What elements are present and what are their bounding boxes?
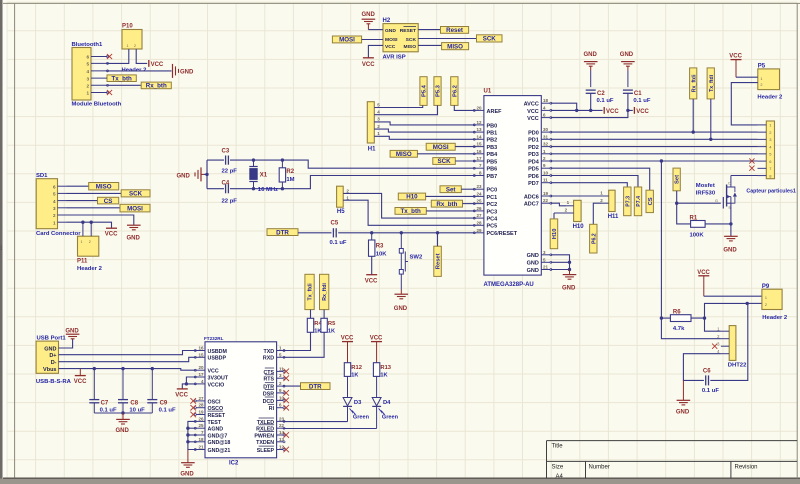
svg-text:1K: 1K xyxy=(328,328,335,334)
svg-text:SCK: SCK xyxy=(406,37,417,43)
svg-text:DSR: DSR xyxy=(263,391,274,397)
svg-text:18: 18 xyxy=(198,437,204,442)
svg-text:MISO: MISO xyxy=(404,44,417,50)
svg-text:SD1: SD1 xyxy=(36,173,48,179)
svg-text:PC6/RESET: PC6/RESET xyxy=(487,231,518,237)
svg-text:100K: 100K xyxy=(690,233,705,239)
svg-text:VCC: VCC xyxy=(74,379,87,385)
svg-text:0.1 uF: 0.1 uF xyxy=(597,98,614,104)
port Reset at H2 xyxy=(441,27,469,35)
IC2 pin 1 TXD xyxy=(263,346,285,355)
port Rx_ftdi vertical bottom xyxy=(320,274,329,309)
IC2 pin 21 GND@21 xyxy=(194,445,230,454)
svg-text:P7.4: P7.4 xyxy=(636,196,642,207)
port P5.4 xyxy=(420,77,428,106)
power GND below MOSFET xyxy=(723,236,737,253)
svg-text:ADC6: ADC6 xyxy=(524,194,539,200)
svg-text:22: 22 xyxy=(543,198,549,203)
IC2 pin 25 AGND xyxy=(194,423,223,432)
header P5 xyxy=(757,63,783,100)
port P6.2 at AREF xyxy=(451,77,459,106)
no-connect x on IC2 DCD xyxy=(283,398,289,404)
svg-text:CS: CS xyxy=(648,197,654,205)
transistor Q1 Mosfet IRF530 xyxy=(696,176,737,210)
svg-text:R3: R3 xyxy=(376,243,384,249)
svg-text:Size: Size xyxy=(552,464,564,470)
svg-text:Revision: Revision xyxy=(735,464,758,470)
power VCC bar right of C2 xyxy=(604,107,619,115)
svg-text:1: 1 xyxy=(760,77,762,81)
svg-text:P7.3: P7.3 xyxy=(625,196,631,207)
connector Capteur particules1 xyxy=(746,121,796,195)
wire Bluetooth1 pin2 to Rx_bth port xyxy=(108,84,142,86)
svg-text:2: 2 xyxy=(760,83,762,87)
svg-text:Module Bluetooth: Module Bluetooth xyxy=(72,102,122,108)
junction GND7 xyxy=(186,433,189,436)
no-connect x on IC2 RI xyxy=(283,405,289,411)
wire IC2 3V3OUT to VCCIO xyxy=(186,377,196,384)
port Tx_ftdi vertical bottom xyxy=(305,274,314,309)
svg-text:ADC7: ADC7 xyxy=(524,202,539,208)
wire PD0 to Capteur pin2 xyxy=(551,131,758,133)
svg-text:Mosfet: Mosfet xyxy=(696,183,715,189)
svg-text:Tx_ftdi: Tx_ftdi xyxy=(308,283,314,301)
wire crystal bottom rail to PB7 xyxy=(207,176,475,189)
svg-text:Set: Set xyxy=(675,175,681,184)
svg-text:DTR: DTR xyxy=(309,383,322,390)
svg-text:C5: C5 xyxy=(331,221,339,227)
svg-text:17: 17 xyxy=(476,156,482,161)
connector Bluetooth1 (Module Bluetooth) xyxy=(72,42,122,107)
port MISO at SD1 xyxy=(89,183,119,191)
svg-text:PC0: PC0 xyxy=(487,188,498,194)
junction C7 top xyxy=(93,367,96,370)
svg-text:GND: GND xyxy=(584,52,598,58)
wire PD1 to Capteur pin3 xyxy=(551,138,758,140)
IC2 pin 6 RI xyxy=(268,403,285,412)
svg-text:Set: Set xyxy=(446,186,456,193)
connector H11 xyxy=(600,190,619,220)
svg-text:10 uF: 10 uF xyxy=(129,407,145,413)
header P9 xyxy=(762,284,788,321)
svg-text:Tx_ftdi: Tx_ftdi xyxy=(709,74,715,92)
svg-text:A4: A4 xyxy=(556,474,564,480)
svg-text:1: 1 xyxy=(53,220,56,225)
svg-text:1M: 1M xyxy=(286,177,294,183)
U1 pin 12 PB0 xyxy=(473,120,497,129)
svg-text:C1: C1 xyxy=(634,91,642,97)
svg-text:4: 4 xyxy=(86,69,89,74)
svg-text:Green: Green xyxy=(382,414,399,420)
IC2 pin 22 RXLED xyxy=(256,423,285,432)
U1 pin 2 PD4 xyxy=(528,156,552,165)
junction R6 left xyxy=(660,316,663,319)
svg-text:Rx_bth: Rx_bth xyxy=(436,201,457,208)
power GND below C8 xyxy=(116,413,130,434)
wire PD4 to Capteur pin6 xyxy=(551,160,758,162)
svg-text:0.1 uF: 0.1 uF xyxy=(330,240,347,246)
port P7.3 vertical xyxy=(624,187,632,216)
svg-text:Reset: Reset xyxy=(436,253,442,269)
svg-text:4.7k: 4.7k xyxy=(673,326,685,332)
wire VCC pin6 to C1 xyxy=(551,110,633,117)
svg-text:17: 17 xyxy=(198,372,204,377)
svg-text:PB0: PB0 xyxy=(487,123,498,129)
IC2 pin 13 TXDEN xyxy=(256,437,285,446)
svg-text:AVR ISP: AVR ISP xyxy=(383,54,406,60)
power GND below C6 xyxy=(676,380,690,415)
junction C2 on rail xyxy=(589,109,592,112)
svg-text:30: 30 xyxy=(543,127,549,132)
U1 pin 32 PD2 xyxy=(528,142,552,151)
svg-text:P6.2: P6.2 xyxy=(591,233,597,244)
svg-text:25: 25 xyxy=(198,423,204,428)
port CS at SD1 xyxy=(98,197,119,205)
svg-text:U1: U1 xyxy=(484,89,492,95)
wire H11 pin2 to P6.2 port xyxy=(593,203,601,224)
no-connect x on IC2 RESET xyxy=(190,412,196,418)
wire PD3 to Capteur pin5 xyxy=(551,153,758,155)
svg-text:VCC: VCC xyxy=(385,44,396,50)
svg-text:27: 27 xyxy=(476,213,482,218)
svg-text:GND: GND xyxy=(180,471,194,477)
wire VCC pin4 rail to VCC bar xyxy=(551,109,603,111)
power GND right of Bluetooth1 xyxy=(173,64,195,78)
svg-text:PB5: PB5 xyxy=(487,159,498,165)
svg-text:P9: P9 xyxy=(762,284,770,290)
port H10 at U1 PC1 xyxy=(398,193,425,201)
wire ADC7 to H10 pin1 xyxy=(551,203,567,206)
junction X1 top xyxy=(252,158,255,161)
resistor R4 xyxy=(307,318,322,334)
capacitor C9 xyxy=(147,369,176,414)
svg-text:19: 19 xyxy=(543,191,549,196)
junction R6 right xyxy=(703,316,706,319)
wire PD5 to CS port xyxy=(551,168,650,190)
svg-text:PB7: PB7 xyxy=(487,174,498,180)
header H2 (AVR ISP) xyxy=(383,18,419,60)
svg-text:G: G xyxy=(715,199,718,203)
port Reset vertical xyxy=(434,246,442,276)
power VCC bar right of C1 xyxy=(634,107,649,115)
junction C9 top xyxy=(151,367,154,370)
wire Tx_ftdi to R4 xyxy=(310,310,312,319)
svg-text:Green: Green xyxy=(353,414,370,420)
wire H2 SCK pin to SCK port xyxy=(418,38,476,40)
IC2 pin 11 CTS xyxy=(263,366,285,375)
connector SD1 (Card Connector) xyxy=(36,173,81,237)
U1 pin 26 PC3 xyxy=(473,206,497,215)
IC2 pin 14 PWREN xyxy=(254,430,285,439)
IC2 pin 4 VCCIO xyxy=(194,379,224,388)
svg-text:0.1 uF: 0.1 uF xyxy=(159,407,176,413)
IC2 pin 16 USBDM xyxy=(194,346,227,355)
wire R6 left junction xyxy=(661,317,670,319)
junction Reset port stem xyxy=(436,231,439,234)
svg-text:SCK: SCK xyxy=(129,191,143,198)
svg-text:GND: GND xyxy=(527,268,539,274)
svg-text:PD3: PD3 xyxy=(528,152,539,158)
capacitor C7 xyxy=(89,369,117,414)
svg-text:2: 2 xyxy=(765,303,767,307)
connector H5 xyxy=(337,186,350,215)
U1 pin 3 GND xyxy=(527,250,552,259)
wire H2 GND pin xyxy=(368,29,383,31)
svg-text:DTR: DTR xyxy=(276,229,289,236)
svg-text:RESET: RESET xyxy=(208,413,226,419)
svg-text:Capteur particules1: Capteur particules1 xyxy=(746,189,796,195)
svg-text:VCC: VCC xyxy=(606,109,619,115)
wire H5 pin2 to U1 PC4 xyxy=(343,193,475,218)
svg-text:22: 22 xyxy=(279,423,285,428)
IC2 pin 27 OSCI xyxy=(194,396,221,405)
svg-text:Reset: Reset xyxy=(446,27,463,34)
connector H10 xyxy=(554,200,584,230)
svg-text:ATMEGA328P-AU: ATMEGA328P-AU xyxy=(484,282,534,288)
wire P6.2 to U1 AREF xyxy=(454,105,475,110)
port Rx_bth at Bluetooth1 xyxy=(141,82,171,90)
svg-text:SCK: SCK xyxy=(483,36,497,43)
svg-text:20: 20 xyxy=(198,365,204,370)
junction PD4 branch xyxy=(660,159,663,162)
svg-text:GND@21: GND@21 xyxy=(208,448,231,454)
U1 pin 16 PB4 xyxy=(473,149,498,158)
U1 pin 10 PD6 xyxy=(528,171,552,180)
U1 pin 15 PB3 xyxy=(473,142,497,151)
svg-text:26: 26 xyxy=(476,206,482,211)
svg-text:Vbus: Vbus xyxy=(43,367,56,373)
U1 pin 9 PD5 xyxy=(528,163,552,172)
svg-text:VCC: VCC xyxy=(527,109,539,115)
svg-text:MISO: MISO xyxy=(447,43,463,50)
svg-text:GND@7: GND@7 xyxy=(208,433,228,439)
wire H1 pin1 to U1 PB2 xyxy=(374,136,475,139)
wire SD1 pin6 to MISO port xyxy=(67,185,89,187)
svg-text:C9: C9 xyxy=(160,400,168,406)
junction R3 top xyxy=(370,231,373,234)
svg-text:P5.3: P5.3 xyxy=(436,84,442,97)
svg-text:VCC: VCC xyxy=(697,270,710,276)
svg-text:P6.2: P6.2 xyxy=(452,85,458,97)
svg-text:Tx_bth: Tx_bth xyxy=(112,75,133,82)
wire P10 pin1 to Bluetooth1 pin5 xyxy=(108,49,129,63)
svg-text:12: 12 xyxy=(476,120,482,125)
wire C5 to U1 PC6/RESET xyxy=(338,232,475,234)
svg-text:AREF: AREF xyxy=(487,109,503,115)
wire VCC to P5 pin1 xyxy=(736,76,758,78)
U1 pin 25 PC2 xyxy=(473,199,497,208)
svg-text:VCC: VCC xyxy=(527,116,539,122)
power GND below U1 xyxy=(562,270,576,292)
svg-text:GND: GND xyxy=(676,410,690,416)
power VCC above R12 xyxy=(341,336,354,363)
port H10 vertical xyxy=(550,219,558,249)
IC2 pin 17 3V3OUT xyxy=(194,372,229,381)
svg-text:32: 32 xyxy=(543,142,549,147)
wire Bluetooth1 pin4 to GND xyxy=(108,70,172,72)
U1 pin 30 PD0 xyxy=(528,127,552,136)
port SCK at U1 PB5 xyxy=(433,158,456,166)
svg-text:USBDP: USBDP xyxy=(208,356,227,362)
svg-text:PD7: PD7 xyxy=(528,181,539,187)
no-connect x on IC2 OSCI xyxy=(190,398,196,404)
svg-text:20: 20 xyxy=(476,105,482,110)
U1 pin 21 GND xyxy=(527,265,552,274)
wire Rx_ftdi to PD0 xyxy=(692,99,694,132)
junction SW2 top xyxy=(400,231,403,234)
IC2 pin 19 RESET xyxy=(194,410,226,419)
power VCC below VCCIO xyxy=(175,389,188,399)
wire Set port to MOSFET gate xyxy=(677,191,721,203)
power GND above C2 xyxy=(584,52,598,87)
svg-text:29: 29 xyxy=(476,228,482,233)
wire H1 pin5 to P5.4 xyxy=(374,105,422,107)
svg-text:C2: C2 xyxy=(597,91,605,97)
svg-text:Rx_bth: Rx_bth xyxy=(146,83,167,90)
U1 pin 19 ADC6 xyxy=(524,191,552,200)
svg-text:1: 1 xyxy=(81,240,83,244)
svg-text:PB4: PB4 xyxy=(487,152,499,158)
junction GND18 xyxy=(186,440,189,443)
capacitor C4 xyxy=(222,180,238,204)
connector H1 xyxy=(367,102,380,153)
port P5.3 xyxy=(434,77,442,106)
svg-text:TEST: TEST xyxy=(208,420,222,426)
no-connect x on Bluetooth1 pin 1 xyxy=(107,90,112,95)
svg-text:D4: D4 xyxy=(383,400,391,406)
no-connect x on Capteur pin7 xyxy=(749,166,754,171)
no-connect x on IC2 PWREN xyxy=(283,432,289,438)
no-connect x on IC2 SLEEP xyxy=(283,447,289,453)
svg-text:PC2: PC2 xyxy=(487,202,498,208)
power VCC above R13 xyxy=(370,336,383,363)
port MOSI at SD1 xyxy=(120,204,150,212)
wire D3 to IC2 TXLED xyxy=(283,421,347,423)
svg-text:2: 2 xyxy=(134,44,136,48)
wire IC2 ground pins xyxy=(188,421,196,449)
svg-text:AGND: AGND xyxy=(208,427,224,433)
wire PD6 to P7.4 port xyxy=(551,176,638,188)
wire SD1 pin3 to MOSI port xyxy=(67,207,121,209)
capacitor C2 xyxy=(586,90,614,104)
wire SCK port to PB5 xyxy=(455,160,475,162)
svg-text:Header 2: Header 2 xyxy=(762,315,788,321)
port Rx_bth at U1 PC2 xyxy=(431,200,462,208)
wire Tx_bth port to PC3 xyxy=(426,210,475,212)
svg-text:IC2: IC2 xyxy=(229,460,239,466)
wire SD1 pin5 to SCK port xyxy=(67,192,122,194)
IC U1 ATMEGA328P-AU body xyxy=(484,89,542,288)
U1 pin 31 PD1 xyxy=(528,134,552,143)
port MISO at H2 xyxy=(442,43,469,51)
junction U1 GND pin5 xyxy=(568,261,571,264)
svg-text:26: 26 xyxy=(198,416,204,421)
svg-text:SW2: SW2 xyxy=(410,255,423,261)
svg-text:3V3OUT: 3V3OUT xyxy=(208,375,229,381)
junction C1 on rail xyxy=(626,109,629,112)
port CS vertical xyxy=(646,190,654,212)
svg-text:2: 2 xyxy=(53,213,56,218)
port MOSI at H2 xyxy=(332,36,361,44)
svg-text:R6: R6 xyxy=(673,309,681,315)
wire H2 MISO pin to MISO port xyxy=(418,44,441,46)
junction crystal gnd xyxy=(205,173,208,176)
wire AVCC to VCC rail xyxy=(551,103,577,110)
svg-text:TXDEN: TXDEN xyxy=(256,440,274,446)
port Set vertical right xyxy=(673,168,681,191)
port SCK at H2 xyxy=(477,35,503,43)
svg-text:Rx_ftdi: Rx_ftdi xyxy=(322,283,328,301)
wire H10 port to PC1 xyxy=(426,195,475,197)
U1 pin 28 PC5 xyxy=(473,220,497,229)
junction Rx_ftdi PD0 xyxy=(692,130,695,133)
U1 pin 23 PC0 xyxy=(473,184,497,193)
U1 pin 6 VCC xyxy=(527,113,552,122)
svg-text:PB6: PB6 xyxy=(487,167,498,173)
IC2 pin 26 TEST xyxy=(194,416,222,425)
IC2 pin 12 SLEEP xyxy=(257,445,285,454)
wire H10 pin2 to H10 vertical port xyxy=(553,213,555,219)
svg-text:PD6: PD6 xyxy=(528,174,539,180)
svg-text:VCC: VCC xyxy=(636,109,649,115)
power VCC at SD1 xyxy=(105,228,118,237)
svg-text:1K: 1K xyxy=(351,373,358,379)
svg-text:0.1 uF: 0.1 uF xyxy=(633,98,650,104)
power VCC below R3 xyxy=(365,275,378,285)
header P10 xyxy=(122,24,148,74)
wire USB D- to IC2 USBDP xyxy=(59,357,196,361)
svg-text:C4: C4 xyxy=(222,180,230,186)
wire U1 GND pins to ground xyxy=(551,255,570,270)
junction source R1 xyxy=(729,222,732,225)
crystal X1 xyxy=(249,160,278,193)
U1 pin 29 PC6/RESET xyxy=(473,228,517,237)
svg-text:VCC: VCC xyxy=(370,336,383,342)
wire SD1 pin2 to GND xyxy=(67,215,134,225)
U1 pin 11 PD7 xyxy=(528,178,552,187)
U1 pin 1 PD3 xyxy=(528,149,552,158)
resistor R5 xyxy=(321,318,336,334)
IC2 pin 15 USBDP xyxy=(194,352,226,361)
wire IC2 DTR pin to DTR port xyxy=(283,385,300,387)
svg-text:6: 6 xyxy=(53,184,56,189)
svg-text:27: 27 xyxy=(198,396,204,401)
wire R4 to IC2 TXD xyxy=(283,332,310,350)
svg-text:PD5: PD5 xyxy=(528,167,539,173)
junction VCCIO xyxy=(185,382,188,385)
wire MOSI port to PB3 xyxy=(455,146,475,148)
wire C6 to P9 net xyxy=(710,303,748,380)
svg-text:22 pF: 22 pF xyxy=(222,168,238,174)
power GND below IC2 xyxy=(180,450,194,478)
junction R2 top xyxy=(281,158,284,161)
svg-text:GND: GND xyxy=(44,346,56,352)
junction X1 bottom xyxy=(252,187,255,190)
svg-text:GND@18: GND@18 xyxy=(208,440,231,446)
svg-text:PD4: PD4 xyxy=(528,159,540,165)
svg-text:P11: P11 xyxy=(77,259,88,265)
svg-text:H10: H10 xyxy=(552,228,558,239)
svg-text:GND: GND xyxy=(620,52,634,58)
capacitor C1 xyxy=(623,90,651,104)
wire PD7 to P7.3 port xyxy=(551,183,627,187)
svg-text:GND: GND xyxy=(527,253,539,259)
port MISO at U1 PB4 xyxy=(390,150,417,158)
IC2 pin 2 DTR xyxy=(263,381,285,390)
no-connect x on Capteur pin6 xyxy=(749,158,754,163)
port P6.2 vertical right xyxy=(590,224,598,253)
wire PD4 branch down to R6 xyxy=(660,161,662,318)
